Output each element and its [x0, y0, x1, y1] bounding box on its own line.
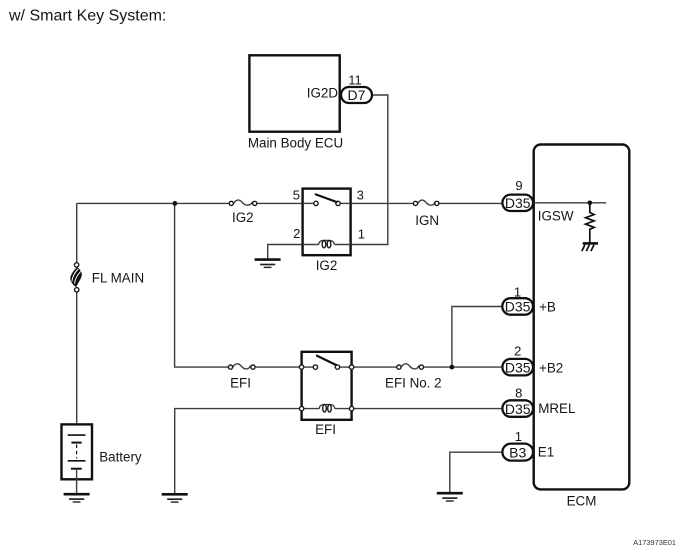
connector D35 pin 9 IGSW: [502, 178, 573, 224]
svg-text:IG2: IG2: [232, 210, 254, 225]
wire relay EFI to fuse EFI No.2: [352, 366, 397, 368]
relay EFI: [299, 352, 353, 437]
node IGSW pull-down junction: [588, 201, 593, 206]
svg-text:3: 3: [357, 187, 364, 202]
svg-text:EFI: EFI: [230, 376, 251, 391]
svg-text:MREL: MREL: [538, 401, 575, 416]
svg-text:5: 5: [293, 188, 300, 203]
wire IG2 relay pin 2 to ground: [268, 245, 303, 260]
svg-text:E1: E1: [538, 445, 554, 460]
wire D7 to IG2 relay pin 1: [351, 95, 388, 245]
svg-text:2: 2: [293, 226, 300, 241]
svg-text:1: 1: [514, 284, 521, 299]
relay IG2 pin labels: [293, 187, 365, 273]
chassis ground (inside ECM): [582, 243, 598, 251]
connector B3 pin 1 E1: [502, 429, 554, 461]
ground (IG2 relay coil): [255, 260, 281, 268]
fuse IGN: [413, 200, 439, 228]
ECM box: [534, 145, 630, 509]
svg-text:w/ Smart Key System:: w/ Smart Key System:: [8, 8, 166, 25]
svg-text:D35: D35: [505, 359, 531, 375]
wire fuse EFI to relay EFI: [255, 366, 302, 368]
ground (E1): [437, 493, 463, 501]
ground (battery): [64, 494, 90, 502]
wire MREL row: [352, 408, 503, 410]
svg-text:+B: +B: [539, 300, 556, 315]
svg-text:D35: D35: [505, 401, 531, 417]
svg-text:A173973E01: A173973E01: [633, 538, 676, 547]
svg-text:11: 11: [348, 73, 362, 88]
footer code: [633, 538, 676, 547]
svg-text:EFI No. 2: EFI No. 2: [385, 376, 442, 391]
svg-text:B3: B3: [509, 444, 526, 460]
connector D35 pin 8 MREL: [502, 385, 575, 417]
svg-text:IG2: IG2: [316, 258, 338, 273]
svg-text:FL MAIN: FL MAIN: [92, 270, 144, 285]
wire EFI relay coil to ground: [175, 409, 302, 495]
svg-text:IGN: IGN: [415, 213, 439, 228]
svg-text:D7: D7: [348, 87, 366, 103]
fuse EFI No. 2: [385, 364, 442, 391]
relay IG2: [303, 189, 351, 256]
svg-text:IG2D: IG2D: [307, 86, 339, 101]
svg-text:D35: D35: [505, 195, 531, 211]
battery: [62, 424, 142, 494]
connector D35 pin 2 +B2: [502, 344, 563, 376]
junction node (battery feed): [173, 201, 178, 206]
wire junction to EFI fuse: [175, 203, 229, 367]
wire left vertical battery to FL MAIN: [76, 203, 78, 262]
title: [8, 8, 166, 25]
ground (EFI relay coil): [162, 494, 188, 502]
resistor (IGSW pull-down): [586, 203, 595, 243]
wire E1 to ground: [450, 452, 503, 493]
svg-text:2: 2: [514, 344, 521, 359]
fuse EFI: [228, 364, 255, 391]
wire IGN row: [351, 202, 503, 204]
wire FL MAIN to battery: [76, 292, 78, 435]
svg-text:1: 1: [358, 226, 365, 241]
junction node (+B branch): [450, 365, 455, 370]
svg-text:8: 8: [515, 385, 522, 400]
svg-text:9: 9: [515, 178, 522, 193]
svg-text:1: 1: [515, 429, 522, 444]
fuse IG2: [229, 200, 257, 225]
wire battery feed top row: [77, 202, 303, 204]
wire +B branch: [452, 307, 502, 368]
svg-text:ECM: ECM: [567, 494, 597, 509]
svg-text:IGSW: IGSW: [538, 209, 574, 224]
svg-text:+B2: +B2: [539, 360, 563, 375]
svg-text:EFI: EFI: [315, 422, 336, 437]
svg-text:Battery: Battery: [99, 449, 142, 464]
connector D35 pin 1 +B: [502, 284, 556, 314]
fusible link FL MAIN: [70, 263, 144, 292]
svg-text:Main Body ECU: Main Body ECU: [248, 135, 343, 150]
svg-text:D35: D35: [505, 299, 531, 315]
Main Body ECU box: [248, 55, 343, 150]
wire IGSW inside ECM: [534, 202, 606, 204]
connector D7 pin 11: [341, 73, 372, 104]
wire fuse EFI No.2 to +B2: [424, 366, 503, 368]
